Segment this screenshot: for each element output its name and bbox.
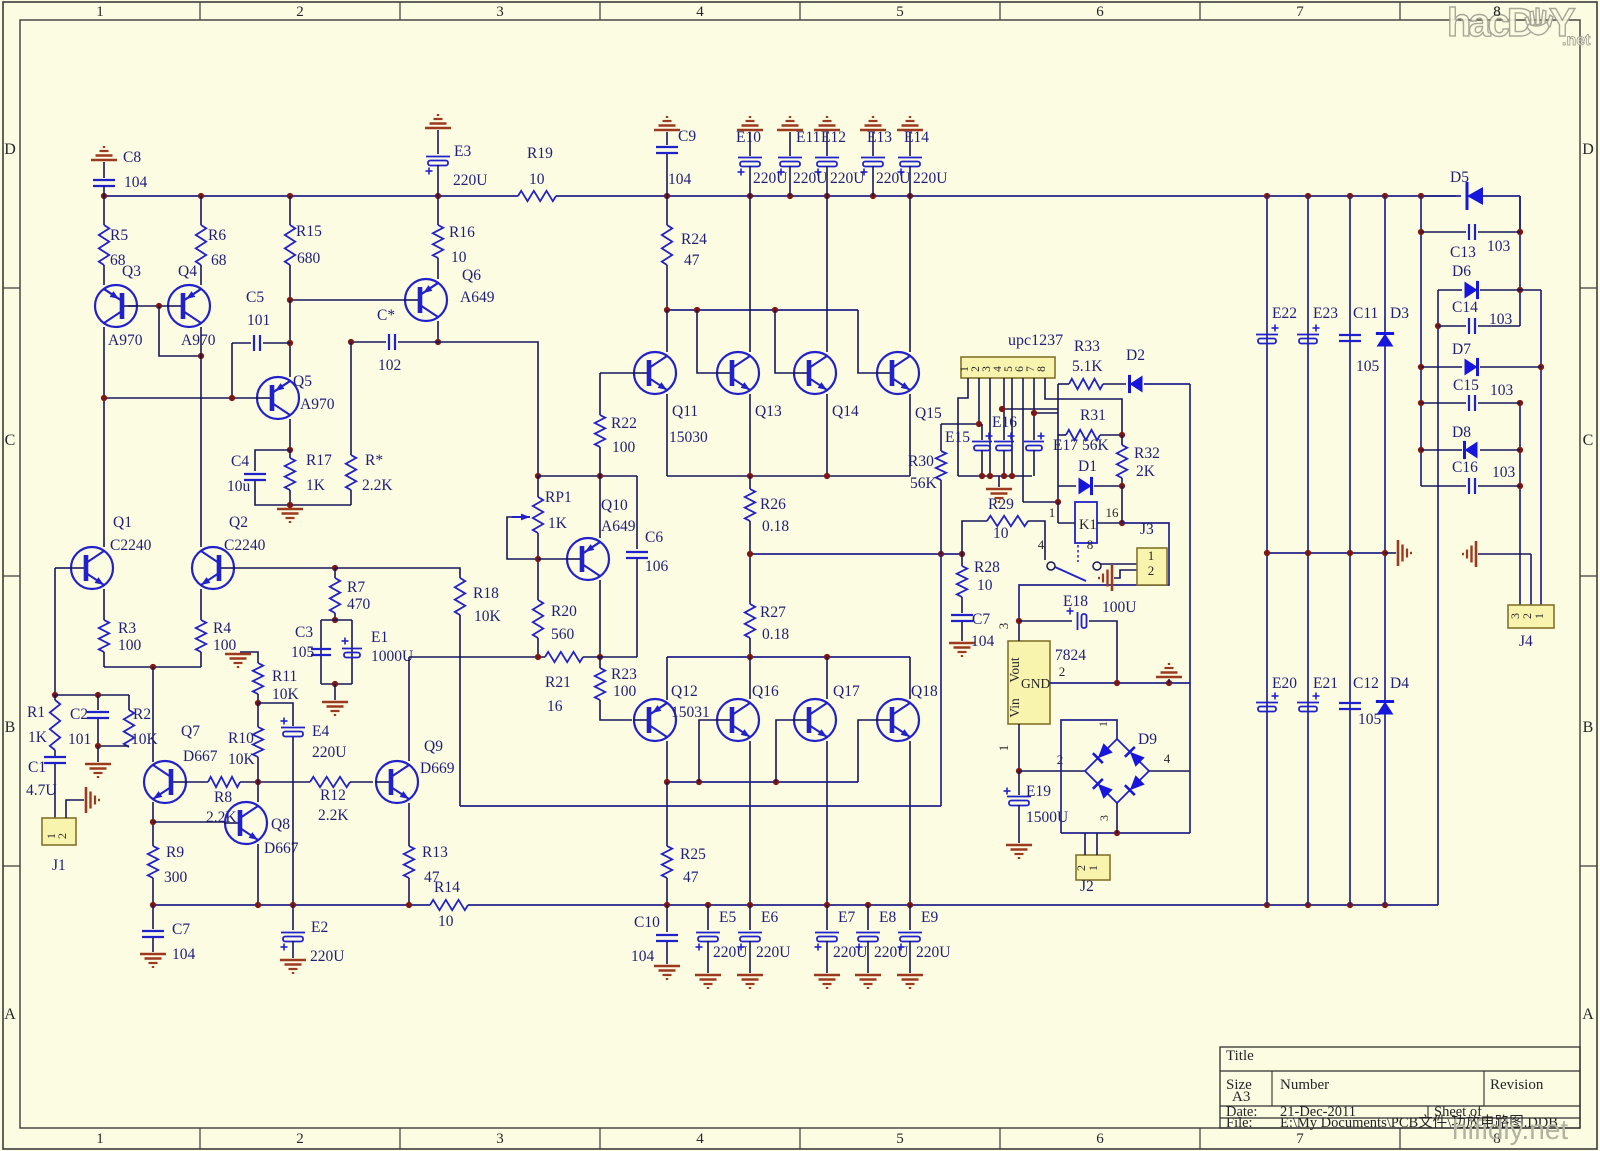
svg-text:upc1237: upc1237 — [1008, 332, 1063, 349]
svg-text:Q5: Q5 — [293, 373, 312, 390]
wire bridge node3 — [1116, 803, 1118, 833]
resistor R12 — [310, 777, 350, 787]
svg-text:C3: C3 — [295, 624, 313, 641]
svg-text:D6: D6 — [1452, 263, 1471, 280]
svg-text:E20: E20 — [1272, 675, 1297, 692]
svg-text:2: 2 — [55, 833, 69, 839]
svg-text:File:: File: — [1226, 1115, 1253, 1131]
svg-text:16: 16 — [547, 698, 563, 715]
svg-text:R32: R32 — [1134, 445, 1160, 462]
wire Q1 base input — [55, 567, 71, 569]
svg-text:A649: A649 — [601, 518, 636, 535]
svg-text:R8: R8 — [214, 789, 232, 806]
svg-text:R25: R25 — [680, 846, 706, 863]
svg-text:2: 2 — [1148, 563, 1155, 578]
resistor R9 — [148, 846, 158, 878]
transistor Q11 — [634, 352, 676, 394]
capacitor C8 — [93, 179, 115, 181]
svg-text:1: 1 — [996, 745, 1011, 752]
svg-text:A970: A970 — [108, 332, 143, 349]
capacitor E21 — [1297, 702, 1319, 704]
svg-text:E6: E6 — [761, 909, 778, 926]
svg-text:4: 4 — [1038, 537, 1045, 552]
svg-text:R5: R5 — [110, 227, 128, 244]
capacitor E20 — [1256, 702, 1278, 704]
ground J4 — [1475, 541, 1478, 567]
svg-text:104: 104 — [631, 948, 655, 965]
svg-text:E13: E13 — [867, 129, 892, 146]
wire Q13 emitter — [749, 394, 751, 476]
wire J2 pin stubs — [1084, 833, 1086, 855]
transistor Q10 — [567, 538, 609, 580]
svg-text:C14: C14 — [1452, 299, 1478, 316]
capacitor E14 with ground — [897, 129, 923, 132]
wire Q7 base to R8 — [186, 781, 208, 783]
svg-text:7: 7 — [1296, 1131, 1304, 1147]
svg-text:Q10: Q10 — [601, 497, 628, 514]
svg-text:560: 560 — [551, 626, 575, 643]
transistor Q15 — [877, 352, 919, 394]
wire R29 to relay contact — [1028, 521, 1045, 560]
wire rail column D3 D4 — [1384, 196, 1386, 905]
resistor R28 — [961, 554, 963, 566]
svg-text:2.2K: 2.2K — [318, 807, 349, 824]
svg-text:15031: 15031 — [671, 704, 710, 721]
svg-text:1: 1 — [1096, 721, 1110, 727]
wire rail column C11 C12 — [1349, 196, 1351, 905]
title block — [1220, 1047, 1580, 1128]
svg-text:10K: 10K — [131, 731, 159, 748]
svg-text:220U: 220U — [310, 948, 344, 965]
resistor R22 — [599, 373, 601, 415]
wire bias network bottom tie — [290, 504, 351, 506]
resistor R18 — [455, 578, 465, 615]
wire Q14 collector column — [826, 196, 828, 352]
wire Q3-Q4 base link — [128, 305, 168, 307]
resistor R26 — [749, 476, 751, 489]
IC 7824 — [1008, 641, 1050, 724]
wire Q13 collector column — [749, 196, 751, 352]
transistor Q13 — [717, 352, 759, 394]
svg-text:104: 104 — [668, 171, 692, 188]
resistor R13 — [404, 846, 414, 878]
wire ladder mid column — [1437, 290, 1439, 905]
wire rail corner right — [1519, 196, 1521, 232]
svg-text:C2: C2 — [70, 706, 88, 723]
svg-text:hacD: hacD — [1447, 1, 1535, 45]
svg-text:4: 4 — [696, 4, 704, 20]
resistor R2 — [128, 695, 130, 710]
svg-text:RP1: RP1 — [545, 489, 572, 506]
svg-text:R24: R24 — [681, 231, 707, 248]
resistor R29 — [987, 516, 1028, 526]
wire Q18 collector corner — [909, 657, 911, 699]
svg-text:4.7U: 4.7U — [26, 782, 57, 799]
relay K1 coil box — [1075, 502, 1097, 543]
wire bus rise Q16 base — [699, 720, 716, 782]
capacitor C5 — [232, 342, 251, 344]
svg-text:1K: 1K — [548, 515, 568, 532]
svg-text:A649: A649 — [460, 289, 495, 306]
relay contact 4 — [1047, 562, 1055, 570]
svg-text:E8: E8 — [879, 909, 896, 926]
capacitor E15 — [981, 424, 983, 440]
svg-text:Q4: Q4 — [178, 263, 197, 280]
svg-text:10: 10 — [993, 525, 1009, 542]
svg-text:Q8: Q8 — [271, 816, 290, 833]
svg-text:A: A — [1582, 1006, 1594, 1023]
svg-text:100: 100 — [613, 683, 637, 700]
svg-text:101: 101 — [247, 312, 270, 329]
svg-text:Q6: Q6 — [462, 267, 481, 284]
svg-text:5.1K: 5.1K — [1072, 358, 1103, 375]
wire upc pin8 — [1045, 378, 1122, 435]
wire R15 column to Q5 — [289, 300, 291, 377]
svg-text:R30: R30 — [908, 453, 934, 470]
svg-text:102: 102 — [378, 357, 401, 374]
capacitor C* with wire — [351, 341, 386, 343]
wire bridge node1 — [1061, 720, 1117, 833]
svg-text:106: 106 — [645, 558, 669, 575]
resistor R33 — [1057, 384, 1059, 399]
svg-text:C10: C10 — [634, 914, 660, 931]
wire tie down to Q7 — [152, 667, 154, 762]
svg-text:Q18: Q18 — [911, 683, 938, 700]
svg-text:Q7: Q7 — [181, 723, 200, 740]
svg-text:1: 1 — [1086, 865, 1100, 871]
svg-text:220U: 220U — [916, 944, 950, 961]
wire Q9 collector — [408, 657, 410, 761]
wire Q3 collector down — [103, 327, 105, 547]
wire Q12 collector down — [666, 741, 668, 782]
svg-text:R21: R21 — [545, 674, 571, 691]
ground R11 — [240, 652, 258, 663]
wire node to RP1 column — [438, 342, 538, 476]
svg-text:68: 68 — [211, 252, 227, 269]
svg-text:C11: C11 — [1353, 305, 1378, 322]
svg-text:7824: 7824 — [1055, 647, 1086, 664]
wire Q11 base from R22 node — [600, 372, 634, 374]
svg-text:103: 103 — [1492, 464, 1516, 481]
capacitor E7 with ground — [826, 905, 828, 930]
wire bottom negative rail — [153, 904, 430, 906]
svg-text:10K: 10K — [272, 686, 300, 703]
wire Q11 collector — [666, 310, 668, 352]
svg-text:D4: D4 — [1390, 675, 1409, 692]
connector J4 — [1508, 605, 1554, 628]
svg-text:D7: D7 — [1452, 341, 1471, 358]
svg-text:C1: C1 — [28, 759, 46, 776]
svg-text:470: 470 — [347, 596, 371, 613]
svg-text:E10: E10 — [736, 129, 761, 146]
capacitor C7 input side with ground — [152, 905, 154, 929]
capacitor E5 with ground — [707, 905, 709, 930]
svg-text:2: 2 — [1057, 752, 1064, 767]
svg-text:B: B — [5, 719, 16, 736]
svg-text:J4: J4 — [1519, 633, 1533, 650]
svg-text:J1: J1 — [52, 857, 66, 874]
wire Q15 emitter — [909, 394, 911, 476]
svg-text:1: 1 — [1148, 548, 1155, 563]
transistor Q8 — [225, 802, 267, 844]
svg-text:D667: D667 — [183, 748, 218, 765]
svg-text:220U: 220U — [756, 944, 790, 961]
capacitor E9 with ground — [909, 905, 911, 930]
capacitor C6 — [636, 476, 638, 549]
svg-text:100: 100 — [213, 637, 237, 654]
svg-text:R15: R15 — [296, 223, 322, 240]
svg-text:Q13: Q13 — [755, 403, 782, 420]
diode D5 — [1466, 182, 1469, 210]
svg-text:R2: R2 — [133, 706, 151, 723]
transistor Q1 — [71, 547, 113, 589]
svg-text:E21: E21 — [1313, 675, 1338, 692]
resistor R14 — [430, 900, 468, 910]
wire Q16 collector — [749, 657, 751, 699]
svg-text:J3: J3 — [1140, 521, 1154, 538]
wire Q11 emitter — [666, 394, 668, 476]
svg-text:R6: R6 — [208, 227, 226, 244]
svg-text:8: 8 — [1087, 537, 1094, 552]
capacitor E11 with ground — [777, 129, 803, 132]
wire Q3 collector to Q5 base — [104, 397, 257, 399]
wire GND column to bridge bottom — [1189, 683, 1191, 833]
wire 476 line — [538, 475, 637, 477]
wire top positive rail — [104, 195, 518, 197]
wire Q8 emitter — [257, 844, 259, 905]
wire Q9 collector to R21 line — [409, 656, 545, 658]
wire C2 R2 tie bottom — [98, 745, 129, 747]
svg-text:C4: C4 — [231, 453, 249, 470]
wire Q4 collector down to Q2 — [200, 327, 202, 547]
wire upc pin1 — [958, 378, 968, 476]
logo hacDIY.net — [1447, 1, 1591, 49]
transistor Q4 — [168, 285, 210, 327]
capacitor C10 with ground — [666, 905, 668, 932]
svg-text:1500U: 1500U — [1026, 809, 1068, 826]
transistor Q5 — [257, 377, 299, 419]
resistor R23 — [599, 657, 601, 668]
connector J2 — [1076, 855, 1110, 880]
svg-text:Number: Number — [1280, 1077, 1329, 1093]
svg-text:47: 47 — [683, 869, 699, 886]
svg-text:E23: E23 — [1313, 305, 1338, 322]
diode D8 — [1421, 449, 1462, 451]
wire Vin to bridge — [1019, 770, 1085, 772]
svg-text:10K: 10K — [228, 751, 256, 768]
resistor R21 line — [545, 652, 583, 662]
wire driver bus lower — [667, 656, 910, 658]
svg-text:E15: E15 — [945, 429, 970, 446]
svg-text:7: 7 — [1296, 4, 1304, 20]
svg-text:R3: R3 — [118, 620, 136, 637]
wire Q10 collector down — [599, 580, 601, 657]
svg-text:B: B — [1583, 719, 1594, 736]
svg-text:R18: R18 — [473, 585, 499, 602]
svg-text:Q15: Q15 — [915, 405, 942, 422]
wire E15 node line — [941, 423, 982, 425]
capacitor C16 — [1421, 485, 1466, 487]
capacitor C4 — [255, 450, 290, 471]
svg-text:E2: E2 — [311, 919, 328, 936]
wire input column — [54, 568, 56, 695]
wire K1 pin16 to 24V — [1097, 522, 1122, 524]
svg-text:3: 3 — [996, 623, 1011, 630]
junction dots top rail — [101, 193, 107, 199]
svg-text:C: C — [5, 432, 16, 449]
diode D3 — [1377, 334, 1394, 347]
svg-text:Q17: Q17 — [833, 683, 860, 700]
svg-text:R20: R20 — [551, 603, 577, 620]
capacitor E3 with ground — [425, 127, 451, 130]
svg-text:R10: R10 — [228, 730, 254, 747]
transistor Q3 — [95, 285, 137, 327]
svg-text:R11: R11 — [272, 668, 297, 685]
diode D4 — [1377, 702, 1394, 715]
svg-text:6: 6 — [1096, 1131, 1104, 1147]
transistor Q7 — [144, 761, 186, 803]
diode D1 — [1058, 485, 1076, 487]
svg-text:R7: R7 — [347, 579, 365, 596]
svg-text:D5: D5 — [1450, 169, 1469, 186]
svg-text:R16: R16 — [449, 224, 475, 241]
svg-text:C9: C9 — [678, 128, 696, 145]
svg-text:103: 103 — [1489, 311, 1513, 328]
svg-text:2: 2 — [1059, 664, 1066, 679]
svg-text:.net: .net — [1562, 32, 1591, 49]
wire ladder outer column — [1540, 290, 1542, 605]
wire Q5 emitter — [289, 419, 291, 450]
wire upper base bus — [667, 309, 858, 311]
svg-text:R26: R26 — [760, 496, 786, 513]
wire emitters tie — [104, 666, 201, 668]
svg-text:6: 6 — [1096, 4, 1104, 20]
svg-text:A970: A970 — [300, 396, 335, 413]
svg-text:R27: R27 — [760, 604, 786, 621]
wire Q2 base to feedback node — [234, 567, 335, 569]
wire ladder right column lower — [1519, 403, 1521, 605]
capacitor C7 zobel with ground — [951, 614, 973, 616]
svg-text:3: 3 — [496, 1131, 504, 1147]
transistor Q2 — [192, 547, 234, 589]
svg-text:C13: C13 — [1450, 244, 1476, 261]
svg-text:E5: E5 — [719, 909, 736, 926]
svg-text:8: 8 — [1493, 4, 1501, 20]
ground input filter — [97, 746, 99, 762]
wire bus rise Q17 base — [776, 720, 794, 782]
wire lower base bus — [667, 781, 858, 783]
svg-text:C5: C5 — [246, 289, 264, 306]
svg-text:Q3: Q3 — [122, 263, 141, 280]
svg-text:R12: R12 — [320, 787, 346, 804]
wire upc pin6 to relay coil — [1022, 378, 1024, 502]
capacitor E4 — [258, 703, 293, 726]
resistor R3 — [103, 589, 105, 620]
svg-text:220U: 220U — [793, 170, 827, 187]
svg-text:47: 47 — [684, 252, 700, 269]
wire contact 8 to J3 — [1101, 563, 1137, 565]
svg-text:C16: C16 — [1452, 459, 1478, 476]
svg-text:C2240: C2240 — [224, 537, 266, 554]
capacitor C1 — [44, 756, 66, 758]
relay contact 8 — [1093, 562, 1101, 570]
svg-text:E1: E1 — [371, 629, 388, 646]
svg-text:101: 101 — [68, 731, 91, 748]
svg-text:103: 103 — [1487, 238, 1511, 255]
resistor R31 — [1066, 430, 1100, 440]
svg-text:E14: E14 — [904, 129, 929, 146]
svg-text:10: 10 — [977, 577, 993, 594]
wire ladder left column — [1420, 196, 1422, 486]
wire RP1 to Q10 base — [538, 558, 567, 560]
svg-text:R9: R9 — [166, 844, 184, 861]
wire R31 left to coil node — [1057, 486, 1059, 502]
svg-text:R17: R17 — [306, 452, 332, 469]
svg-text:hifidiy.net: hifidiy.net — [1452, 1114, 1568, 1145]
svg-text:1: 1 — [96, 4, 104, 20]
svg-text:Q2: Q2 — [229, 514, 248, 531]
svg-text:4: 4 — [1164, 751, 1171, 766]
wire bus drop Q13 base — [697, 310, 716, 373]
resistor R16 — [437, 196, 439, 225]
wire node to RP1 — [535, 473, 541, 479]
wire mid ground tie — [1267, 552, 1385, 554]
resistor R27 — [749, 554, 751, 604]
svg-text:220U: 220U — [453, 172, 487, 189]
wire K1 pin1 — [1057, 502, 1059, 523]
svg-text:Q16: Q16 — [752, 683, 779, 700]
svg-text:E7: E7 — [838, 909, 855, 926]
ground J1 — [85, 787, 88, 813]
wire Q15 collector column — [909, 196, 911, 352]
svg-text:105: 105 — [1356, 358, 1380, 375]
wire emitter bus upper — [667, 475, 910, 477]
svg-text:103: 103 — [1490, 382, 1514, 399]
wire rail column E22 E20 — [1266, 196, 1268, 905]
ground relay — [1111, 565, 1114, 591]
resistor R20 — [533, 600, 543, 638]
svg-text:2: 2 — [296, 1131, 304, 1147]
svg-text:10: 10 — [438, 913, 454, 930]
svg-text:220U: 220U — [913, 170, 947, 187]
bridge rectifier D9 — [1085, 739, 1149, 803]
svg-text:C: C — [1583, 432, 1594, 449]
svg-text:3: 3 — [496, 4, 504, 20]
capacitor C13 — [1421, 231, 1466, 233]
transistor Q6 — [405, 279, 447, 321]
svg-text:10u: 10u — [227, 478, 251, 495]
svg-text:15030: 15030 — [669, 429, 708, 446]
wire upc taps to R31 node — [1002, 408, 1058, 410]
svg-text:C*: C* — [377, 307, 395, 324]
wire Q7 emitter — [152, 802, 154, 846]
transistor Q17 — [794, 699, 836, 741]
capacitor E22 — [1256, 334, 1278, 336]
resistor R5 — [103, 196, 105, 225]
capacitor E12 with ground — [814, 129, 840, 132]
capacitor C11 — [1339, 334, 1361, 336]
svg-text:E18: E18 — [1063, 593, 1088, 610]
resistor R15 — [289, 196, 291, 225]
svg-text:K1: K1 — [1079, 517, 1097, 533]
wire output to R29 — [962, 521, 987, 554]
wire pin3 Vout — [1018, 621, 1020, 641]
wire upc pin2 to E15 line — [978, 378, 980, 424]
resistor R25 — [666, 782, 668, 846]
capacitor C15 — [1421, 402, 1466, 404]
svg-text:220U: 220U — [312, 744, 346, 761]
svg-text:R33: R33 — [1074, 338, 1100, 355]
